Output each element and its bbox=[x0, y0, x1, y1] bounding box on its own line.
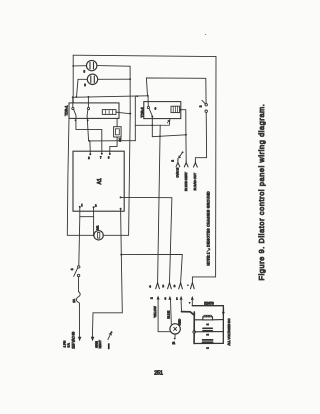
arrowhead on right wire bbox=[222, 312, 225, 316]
wire F1 to source arrow1 bbox=[78, 305, 80, 337]
svg-text:5: 5 bbox=[88, 157, 90, 160]
speck bbox=[205, 34, 206, 35]
lamp DS3 bbox=[170, 324, 180, 334]
wire bus y97 bbox=[72, 96, 148, 98]
meter M1 wire left bbox=[67, 234, 94, 236]
wire left side lower bbox=[67, 118, 69, 235]
node right wire tick2 bbox=[223, 310, 225, 312]
wire P4 down bbox=[191, 300, 193, 306]
node near P4 bbox=[189, 302, 191, 304]
svg-text:2: 2 bbox=[199, 105, 203, 107]
node near P4 socket bbox=[187, 284, 189, 286]
amplifier A1 box bbox=[73, 151, 124, 211]
svg-text:NOTE: 1: NOTE: 1 bbox=[206, 252, 210, 265]
inductor L1 bbox=[203, 315, 213, 320]
svg-text:1: 1 bbox=[81, 204, 83, 207]
svg-text:1: 1 bbox=[176, 297, 178, 301]
lamp DS2 bbox=[87, 74, 97, 84]
wire rect upper right bbox=[146, 78, 206, 104]
wire bus drop to relay row bbox=[134, 96, 136, 141]
svg-text:2: 2 bbox=[162, 284, 164, 288]
connector P2 pin bbox=[168, 296, 171, 300]
svg-text:C1: C1 bbox=[118, 138, 122, 142]
coil TDR-1 bbox=[102, 110, 116, 115]
svg-text:YELLOW: YELLOW bbox=[153, 306, 157, 318]
node y136 end bbox=[185, 134, 187, 136]
arrowhead source2 bbox=[91, 337, 95, 341]
wire lamp DS1 left bbox=[73, 65, 86, 67]
K3978 left wire bbox=[193, 312, 195, 344]
wire bottom link bbox=[80, 216, 94, 218]
ground bar bbox=[108, 343, 110, 349]
wire S3 feed bbox=[79, 217, 80, 266]
svg-text:251: 251 bbox=[154, 371, 163, 377]
wire coil TDR-1 out bbox=[116, 112, 130, 114]
connector P4 pin bbox=[191, 296, 194, 300]
node TDR-2 stub top bbox=[147, 95, 149, 97]
svg-text:IR RAD HEAT: IR RAD HEAT bbox=[184, 172, 188, 191]
svg-text:2: 2 bbox=[206, 323, 210, 325]
node lamp DS3 bottom bbox=[174, 338, 176, 340]
wire lamp DS1 right bbox=[97, 65, 130, 68]
wire top bus bbox=[73, 55, 216, 56]
wire P3 thick bbox=[180, 300, 182, 311]
ground arrow bottom bbox=[108, 331, 113, 339]
ground arrow at J1 bbox=[179, 151, 184, 158]
wire contact K1b to row y141 bbox=[87, 116, 89, 141]
svg-text:NEUT: NEUT bbox=[98, 340, 102, 348]
svg-text:3: 3 bbox=[165, 296, 167, 300]
node A1 pin1 bbox=[89, 153, 91, 155]
node row y141 bbox=[89, 140, 91, 142]
wire S3 to F1 bbox=[78, 277, 80, 292]
svg-text:BLUE: BLUE bbox=[166, 311, 170, 319]
svg-text:Figure 9. Dilator control pan: Figure 9. Dilator control panel wiring d… bbox=[257, 104, 266, 281]
connector P1 socket bbox=[156, 283, 160, 289]
wire lamp DS3 bottom stub bbox=[174, 334, 176, 338]
note arrow symbol bbox=[207, 249, 210, 252]
svg-text:IR RAD OUT: IR RAD OUT bbox=[193, 173, 197, 191]
contact K2 bbox=[147, 106, 152, 115]
wire row y254 to P3 bbox=[121, 254, 182, 282]
wire A1 pin1 up bbox=[89, 141, 91, 154]
wire long vertical to P1 bbox=[158, 125, 161, 282]
svg-text:7: 7 bbox=[100, 157, 102, 160]
wire C1 to A1 pin3 bbox=[110, 137, 117, 154]
svg-text:M1: M1 bbox=[95, 225, 99, 229]
wire contact K1a to A1 pin2 bbox=[76, 116, 102, 154]
svg-text:4: 4 bbox=[149, 285, 151, 289]
wire lamp common vertical bbox=[129, 66, 131, 235]
wire rung3 bbox=[194, 342, 223, 344]
terminal circle on left wire bbox=[193, 331, 196, 334]
node right wire tick1 bbox=[223, 308, 225, 310]
meter M1 bbox=[94, 231, 103, 240]
wire A1 pin4 to P2 bbox=[121, 197, 172, 282]
svg-text:2: 2 bbox=[170, 160, 174, 162]
wire y125 row bbox=[135, 119, 170, 126]
node meter row join bbox=[93, 234, 95, 236]
wire P4 to K3978 right bbox=[192, 306, 223, 344]
wire coil TDR-2 to J2 bbox=[180, 110, 186, 161]
contact K1b bbox=[87, 107, 90, 115]
node coil join bbox=[129, 113, 131, 115]
node coil TDR-2 out bbox=[179, 109, 181, 111]
contact K1a bbox=[72, 107, 76, 115]
svg-text:5 A: 5 A bbox=[67, 343, 71, 347]
svg-text:RED: RED bbox=[178, 318, 182, 325]
wire lamp DS2 right bbox=[98, 78, 130, 80]
connector P2 socket bbox=[168, 283, 172, 289]
connector P3 pin bbox=[180, 296, 183, 300]
coil TDR-2 bbox=[171, 106, 180, 112]
fuse F1 bbox=[76, 292, 80, 305]
node bus left bbox=[72, 96, 74, 98]
wire contact K2 drop bbox=[151, 117, 153, 137]
node contact K2 bottom bbox=[151, 116, 153, 118]
contact K1b stub bbox=[87, 97, 89, 108]
node bus mid bbox=[136, 95, 138, 97]
wire row y141 bbox=[89, 140, 136, 142]
wire A1 pin7 down bbox=[120, 209, 123, 255]
contact K1a stub bbox=[72, 97, 74, 107]
connector P1 pin bbox=[157, 296, 160, 300]
capacitor C2 bbox=[203, 328, 212, 331]
connector J1 bbox=[176, 159, 180, 167]
svg-text:A1: A1 bbox=[97, 178, 103, 184]
svg-text:2A: 2A bbox=[72, 299, 76, 303]
svg-text:3: 3 bbox=[70, 268, 74, 270]
svg-text:K3978: K3978 bbox=[204, 302, 214, 306]
node y136 crossing bbox=[159, 135, 161, 137]
node A1 pin4 right bbox=[120, 196, 122, 198]
node A1 pin6 bbox=[93, 206, 95, 208]
svg-text:3: 3 bbox=[174, 284, 176, 288]
node bus contact2 bbox=[88, 96, 90, 98]
wire down to source arrow2 bbox=[92, 255, 122, 337]
svg-text:5: 5 bbox=[84, 84, 86, 87]
wire P1 to lamp DS3 bbox=[158, 300, 170, 332]
node A1 pin7 bbox=[120, 208, 122, 210]
node contact K1b bottom bbox=[87, 119, 89, 121]
wire left side bbox=[72, 55, 74, 103]
arrowhead source1 bbox=[78, 337, 82, 341]
arrow mark on wire bbox=[167, 120, 169, 123]
node y125 contact drop bbox=[151, 124, 153, 126]
wire S2 to J3 bbox=[195, 112, 206, 161]
wire right side down to connector P4 bbox=[192, 57, 216, 283]
connector J2 bbox=[184, 161, 188, 167]
wire P2 to lamp DS3 top bbox=[170, 300, 173, 324]
svg-text:5: 5 bbox=[84, 70, 86, 73]
wire TDR-2 stub bbox=[147, 96, 149, 107]
connector P3 socket bbox=[179, 283, 183, 289]
relay TDR-2 box bbox=[144, 102, 181, 119]
wire P3 to K3978 bbox=[182, 312, 195, 316]
switch S2 bbox=[202, 100, 208, 112]
node lamp DS1 left join bbox=[72, 65, 74, 67]
node lamp DS2 join bbox=[129, 78, 131, 80]
node A1 pin3 bbox=[109, 153, 111, 155]
svg-text:115 VAC 60: 115 VAC 60 bbox=[72, 332, 76, 349]
svg-text:OVN HI: OVN HI bbox=[176, 167, 180, 177]
svg-text:2: 2 bbox=[205, 347, 209, 349]
wire rung1 bbox=[194, 319, 223, 321]
wire A1 pin6 down bbox=[93, 207, 95, 217]
svg-text:TDR-1: TDR-1 bbox=[65, 106, 69, 116]
capacitor C1 bbox=[114, 118, 122, 137]
svg-text:ALL VOLTAGES DC: ALL VOLTAGES DC bbox=[227, 318, 231, 346]
svg-text:11: 11 bbox=[172, 341, 175, 345]
node bottom junction bbox=[120, 254, 122, 256]
svg-text:TDR-2: TDR-2 bbox=[140, 107, 144, 117]
capacitor C3 bbox=[203, 340, 213, 342]
svg-text:2: 2 bbox=[205, 334, 209, 336]
connector J3 bbox=[194, 162, 198, 168]
svg-text:3: 3 bbox=[108, 157, 110, 160]
node A1 pin2 bbox=[101, 153, 103, 155]
svg-text:6: 6 bbox=[155, 106, 157, 110]
lamp DS1 bbox=[87, 60, 97, 70]
wire pin6 to meter row bbox=[93, 217, 95, 236]
wire lamp DS2 left bbox=[77, 79, 88, 97]
wire row y136 sloped bbox=[152, 135, 186, 137]
wire A1 pin5 down bbox=[79, 207, 81, 217]
switch S3 bbox=[74, 266, 80, 277]
connector P4 socket bbox=[191, 283, 195, 289]
relay TDR-1 box bbox=[69, 103, 119, 119]
meter M1 wire right bbox=[103, 234, 128, 236]
node contact K1a bottom bbox=[75, 119, 77, 121]
node A1 pin5 bbox=[79, 206, 81, 208]
node bus lamp2 bbox=[76, 96, 78, 98]
svg-text:2: 2 bbox=[95, 204, 97, 207]
svg-text:2: 2 bbox=[150, 297, 154, 299]
svg-text:DENOTES CHASSIS GROUND: DENOTES CHASSIS GROUND bbox=[206, 191, 210, 247]
wire rung2 bbox=[194, 331, 223, 333]
